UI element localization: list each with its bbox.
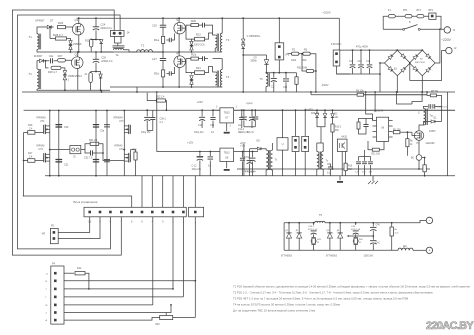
junction c37 rail — [242, 151, 244, 153]
label 18v — [335, 117, 340, 119]
wire r11 right — [379, 141, 384, 149]
svg-text:2sk1692: 2sk1692 — [426, 142, 436, 145]
capacitor C38-2 — [311, 231, 317, 234]
svg-text:1N5819/5А19: 1N5819/5А19 — [68, 75, 83, 78]
wire feed line B drop2 — [310, 92, 312, 95]
svg-text:C-12: C-12 — [192, 166, 198, 168]
wire diode string top — [242, 18, 244, 39]
transformer T4 core — [217, 71, 218, 87]
wire caps13 col b — [146, 121, 148, 131]
svg-text:~220V: ~220V — [441, 38, 452, 42]
label UT2 — [39, 148, 44, 151]
junction c38 rail — [252, 151, 254, 153]
connector pin 3 — [161, 211, 164, 214]
wire output top rail right — [325, 222, 399, 224]
junction c16 rail — [201, 109, 203, 111]
svg-text:2,4: 2,4 — [29, 155, 33, 158]
label 9u Pb — [305, 110, 313, 112]
capacitor C3 — [271, 78, 277, 81]
wire c40 b — [372, 231, 374, 240]
svg-text:P4: P4 — [52, 263, 56, 266]
label C13b — [283, 87, 288, 89]
wire r7 node — [422, 157, 425, 159]
svg-text:R28 4-7: R28 4-7 — [53, 33, 63, 37]
resistor R10-2 — [331, 124, 334, 132]
wire R28 left — [50, 38, 56, 40]
connector pin 1 — [182, 211, 185, 214]
wire cbl 2 b — [370, 165, 372, 176]
label +15v left — [240, 145, 246, 148]
ground mid section — [337, 181, 343, 183]
wire T6 top node — [265, 71, 268, 74]
wire control up 173.0 — [172, 176, 174, 208]
junction cap col rail — [58, 175, 60, 177]
transformer T6 winding — [266, 73, 268, 86]
svg-text:R26: R26 — [58, 21, 64, 25]
wire J3 bottom — [337, 66, 351, 74]
junction UT34 mid — [123, 149, 125, 151]
connector JP3 — [292, 136, 299, 151]
wire U6 pin right 0 — [389, 120, 393, 122]
svg-text:C20: C20 — [152, 24, 157, 28]
svg-text:100k: 100k — [291, 60, 297, 62]
P4 pin label 4 — [46, 297, 48, 299]
label C9 value — [251, 61, 258, 63]
wire Q1 drain up — [78, 18, 80, 24]
wire R27 to Q3 gate — [66, 60, 73, 62]
diode D4 — [323, 114, 326, 118]
connector pin 9 — [99, 211, 102, 214]
wire TB15 out — [234, 109, 455, 111]
wire to minus terminal — [399, 220, 427, 222]
junction R22 rail — [166, 109, 168, 111]
wire J4 tab to Ta — [117, 43, 119, 46]
svg-text:R1b: R1b — [154, 72, 160, 76]
wire d20 stub — [316, 110, 318, 113]
junction section rail b — [136, 91, 138, 93]
capacitor C32 — [91, 150, 93, 155]
junction C24 bus — [95, 17, 97, 19]
wire c470 a — [249, 149, 251, 160]
resistor R43 circle — [311, 238, 316, 243]
label U5 — [282, 142, 284, 146]
label outdiode2 1 — [326, 230, 329, 232]
capacitor C27 — [160, 59, 166, 61]
label IRF9640 UT3 — [114, 117, 124, 120]
junction outdiode 0 — [288, 222, 290, 224]
resistor R12 — [75, 272, 85, 275]
wire Q1 source down — [78, 35, 80, 53]
label Ta — [116, 53, 119, 57]
svg-text:R6 13k: R6 13k — [356, 90, 364, 93]
junction Q3 drain rail — [77, 51, 79, 53]
P4 pin label 3 — [46, 289, 48, 291]
wire T7a bottom — [265, 170, 267, 176]
label 60TTH6063 left — [281, 256, 293, 258]
wire D14 bottom — [100, 78, 102, 90]
svg-text:+15V: +15V — [197, 100, 204, 104]
junction r4a — [391, 222, 393, 224]
pin 3 — [216, 107, 218, 109]
wire tm top left — [424, 106, 429, 108]
svg-text:+15v: +15v — [240, 145, 246, 148]
thermistor RT1 — [405, 15, 412, 18]
junction outdiode2 1 — [339, 222, 341, 224]
junction r10-2 rail — [332, 168, 334, 170]
transformer T6 core — [268, 73, 269, 86]
svg-text:6TTH6063: 6TTH6063 — [281, 256, 293, 258]
junction r4 — [407, 131, 409, 133]
label R16 value — [29, 127, 33, 130]
wire JP4 up — [304, 110, 306, 136]
label R17 value — [29, 155, 33, 158]
ground TB15 — [224, 132, 230, 134]
sense element R7 — [416, 155, 422, 161]
resistor R24 — [195, 71, 205, 75]
wire gate UT4 feed — [103, 153, 125, 161]
label 103 — [362, 172, 366, 174]
label C14 value — [208, 166, 212, 168]
wire c9 chain a — [266, 55, 268, 60]
label C 470u 50v — [244, 171, 257, 173]
wire T7b bottom — [272, 170, 274, 176]
resistor R3 — [303, 52, 311, 55]
junction r7 rail — [418, 168, 420, 170]
label 60TTH6063 right — [326, 256, 338, 258]
capacitor C39 — [353, 231, 359, 234]
transformer T1b core — [39, 69, 40, 89]
label C32 7.5 — [84, 157, 93, 160]
wire R14 D14 top tie — [91, 71, 101, 73]
junction c35 rail — [251, 109, 253, 111]
capacitor C25b — [169, 71, 171, 75]
wire Ta right to T2 — [124, 50, 137, 52]
svg-text:VR2: VR2 — [155, 323, 160, 326]
svg-text:R13: R13 — [85, 40, 90, 43]
svg-text:R5 150: R5 150 — [393, 129, 401, 131]
connector P4 pin 6 — [54, 311, 57, 314]
svg-text:C17: C17 — [349, 61, 354, 63]
svg-text:C1 470 16в: C1 470 16в — [437, 107, 449, 109]
zener protection upper — [69, 41, 72, 45]
wire U6 pin left 0 — [373, 120, 377, 122]
svg-text:C19: C19 — [366, 61, 371, 63]
svg-text:-310V: -310V — [321, 83, 329, 87]
wire JP3 down — [295, 152, 297, 176]
svg-text:10КО 2СА: 10КО 2СА — [194, 44, 205, 47]
wire c38 col — [252, 152, 254, 158]
capacitor C13 — [144, 117, 150, 120]
pin number 0 — [195, 220, 197, 223]
wire control up 162.7 — [162, 176, 164, 208]
wire c12 colb — [199, 160, 201, 175]
svg-text:U: U — [282, 142, 284, 146]
capacitor C20 — [160, 25, 166, 27]
svg-text:2 1N5408/UL: 2 1N5408/UL — [247, 35, 262, 38]
pin 2 — [230, 126, 232, 128]
wire T1 top to gate network — [37, 27, 47, 34]
svg-text:R23: R23 — [196, 34, 201, 37]
transistor Q3 — [71, 57, 83, 69]
capacitor C40 — [370, 227, 376, 230]
junction C20 bus — [162, 17, 164, 19]
svg-text:B2: B2 — [420, 59, 423, 61]
wire zener Q4 to rail — [191, 85, 193, 88]
junction r mid — [282, 109, 284, 111]
capacitor C1a — [429, 104, 431, 108]
svg-text:2F4007: 2F4007 — [34, 54, 43, 58]
svg-text:R31 100k: R31 100k — [297, 67, 308, 70]
wire rail through Ta gap — [102, 51, 114, 53]
wire c15 col — [212, 110, 214, 116]
label 1N5819 5A19 — [68, 75, 83, 78]
output diode 3 — [327, 233, 332, 238]
wire mid bottom rail 1 — [237, 168, 430, 170]
svg-text:C4: C4 — [355, 172, 359, 174]
label R4 — [410, 141, 414, 143]
fuse F1 — [388, 15, 395, 18]
junction C26 R14 — [95, 71, 97, 73]
label R2 value — [291, 60, 297, 62]
zener protection upper B — [63, 71, 66, 75]
label T3 — [226, 38, 230, 42]
resistor R43 — [312, 238, 315, 245]
svg-text:4,7к: 4,7к — [395, 233, 399, 235]
svg-text:C15: C15 — [210, 125, 215, 127]
transformer T4 winding left — [215, 72, 217, 85]
label 0.1b — [239, 132, 243, 134]
capacitor C12 plates bold — [197, 156, 203, 158]
wire Q3 source down — [77, 68, 79, 90]
label TB12 — [224, 152, 231, 155]
junction JP2 bus — [278, 17, 280, 19]
connector P4 pin 3 — [54, 288, 57, 291]
svg-text:T5: T5 — [319, 213, 323, 217]
svg-text:C27: C27 — [152, 57, 157, 61]
wire d jointail — [320, 127, 322, 143]
wire bottom rail to coil — [373, 249, 398, 251]
wire C4b to T3 — [205, 25, 213, 28]
wire r11 left — [368, 141, 372, 150]
label C40 — [376, 225, 381, 227]
label F1 — [388, 9, 391, 12]
diode D13 — [100, 40, 103, 44]
wire d20 d4 join — [317, 118, 325, 127]
capacitor C14 — [208, 157, 214, 159]
wire u6 feed — [366, 98, 373, 121]
wire c36 bot — [152, 120, 154, 131]
resistor R13 — [90, 39, 93, 47]
junction Q1 drain bus — [78, 17, 80, 19]
wire c14 colb — [209, 160, 211, 175]
label C3 — [271, 87, 275, 89]
wire c35 colb — [251, 121, 253, 128]
wire c34 col — [241, 110, 243, 116]
capacitor C5 — [363, 125, 368, 127]
capacitor C31 — [55, 160, 62, 162]
wire snub1 b — [313, 234, 315, 237]
wire R23 top node — [186, 28, 192, 39]
junction D13 rail — [100, 51, 102, 53]
label D8 — [257, 140, 261, 143]
label R27 — [58, 54, 63, 58]
junction T2 right — [162, 51, 164, 53]
wire C24 top — [95, 18, 97, 27]
pin number 4 — [152, 220, 154, 224]
label P4 — [52, 263, 56, 266]
capacitor C19 — [367, 65, 373, 68]
svg-text:UT2: UT2 — [39, 148, 44, 151]
wire U6 pin right 2 — [389, 131, 393, 133]
label R6 13k — [356, 90, 364, 93]
diode D7 — [47, 25, 51, 28]
pin number 10 — [88, 220, 91, 224]
label B2 — [420, 59, 423, 61]
junction d20 — [316, 109, 318, 111]
wire output top rail left — [284, 222, 315, 224]
label J4 — [127, 31, 130, 35]
connector JP4 — [302, 136, 309, 151]
junction b1 left drop — [379, 62, 381, 64]
wire VR2 wiper — [165, 313, 167, 316]
capacitor C4k — [51, 58, 53, 63]
wire J5 left — [50, 149, 70, 151]
wire cl link — [366, 119, 373, 121]
pin number 6 — [131, 220, 133, 224]
wire P4 pin5 wire — [64, 304, 153, 306]
label VR2 — [155, 323, 160, 326]
svg-text:Д3: Д3 — [326, 230, 329, 232]
connector P4 pin 5 — [54, 304, 57, 307]
label 0.68 630v — [331, 43, 342, 46]
wire r mid a — [282, 110, 284, 138]
svg-text:3к: 3к — [85, 73, 88, 76]
wire c37 col — [242, 152, 244, 158]
bridge B2 diode — [426, 67, 431, 72]
label R16 — [28, 124, 33, 127]
label D2 18v — [335, 114, 339, 116]
wire outdiode2 1 b — [339, 238, 341, 250]
wire R20 top — [131, 150, 136, 154]
transformer T7 core — [268, 150, 269, 170]
wire p1 source — [418, 140, 420, 154]
label C1 4700 160 — [437, 107, 449, 109]
svg-text:Ta: Ta — [116, 53, 119, 57]
label Df — [403, 245, 407, 248]
label R8 50k — [431, 91, 439, 93]
wire coil to plus terminal — [413, 249, 426, 251]
label outdiode2 2 — [337, 230, 340, 232]
resistor R31 — [306, 69, 314, 72]
wire T1 bottom to rail — [37, 49, 52, 52]
optocoupler U4 innards — [340, 143, 345, 149]
wire cap bank 2 bottom — [369, 68, 371, 74]
svg-text:RT1: RT1 — [403, 9, 408, 12]
svg-text:C39: C39 — [351, 226, 356, 228]
capacitor C38 — [250, 158, 256, 161]
connector JP3 pins — [294, 139, 297, 149]
junction D14 rail — [100, 89, 102, 91]
wire output left vert — [283, 223, 285, 251]
label C38-2 value — [308, 229, 318, 231]
transistor UT2 IRF640 — [44, 153, 50, 163]
wire snub1 a — [313, 223, 315, 225]
capacitor C26 — [93, 59, 99, 62]
svg-text:103: 103 — [369, 172, 373, 174]
wire TB12 out — [234, 151, 258, 153]
bridge rectifier B1 outline — [385, 50, 411, 76]
svg-text:0,1: 0,1 — [208, 166, 212, 168]
wire C25 right — [171, 34, 174, 41]
svg-text:KBPC3510: KBPC3510 — [415, 62, 426, 64]
svg-text:Т4 на кольце 20*10*5 мотать 50: Т4 на кольце 20*10*5 мотать 50 витков 0,… — [233, 303, 340, 307]
svg-text:J5: J5 — [73, 156, 76, 159]
svg-text:0,68 630v: 0,68 630v — [331, 43, 342, 46]
wire r32 up — [296, 73, 298, 77]
wire cap bank 1 top — [360, 50, 362, 64]
label R43 value — [317, 242, 320, 244]
transformer T7 winding B — [270, 150, 272, 170]
label 47u 6v — [247, 132, 255, 134]
wire c13 gnd tie — [147, 130, 153, 132]
wire caps gnd link — [244, 126, 255, 128]
connector pin 6 — [130, 211, 133, 214]
svg-text:5мк(Рб): 5мк(Рб) — [305, 110, 313, 112]
wire rb b — [424, 172, 426, 176]
wire cap 255.3 a — [254, 110, 256, 116]
label 1500 2kV — [364, 256, 374, 258]
label C19 — [366, 61, 371, 63]
wire T8 top — [316, 143, 318, 152]
capacitor C4b — [203, 23, 205, 28]
label IRF640 UT2 — [37, 145, 46, 148]
wire cbl top tie — [359, 156, 371, 158]
wire R16 left — [24, 131, 28, 133]
label S1 — [409, 21, 411, 24]
capacitor C17 — [350, 65, 356, 68]
switch S1 — [403, 25, 421, 31]
junction c14 rail — [209, 151, 211, 153]
label 0.1 — [211, 132, 215, 134]
connector P4 pin 1 — [54, 272, 57, 275]
label 100u 16v — [141, 132, 151, 134]
transformer T1 primary winding — [37, 34, 39, 50]
svg-text:Z: Z — [46, 313, 48, 315]
connector pin 10 — [88, 211, 91, 214]
label TB15 — [224, 112, 231, 115]
label B1 — [394, 68, 398, 71]
svg-text:R8 50k: R8 50k — [431, 91, 439, 93]
junction snub1 — [313, 222, 315, 224]
label R2 — [292, 49, 296, 52]
wire control up 152.3 — [151, 176, 153, 208]
junction Q1 source rail — [78, 51, 80, 53]
note line 1 — [233, 285, 471, 289]
label C24 value — [101, 27, 113, 30]
wire cbl to ic — [364, 150, 366, 157]
wire input row — [383, 15, 429, 17]
wire Q4 gate right — [182, 59, 191, 62]
svg-text:D1: D1 — [434, 118, 438, 120]
wire gnd stub right — [372, 176, 374, 181]
wire D13 vertical — [100, 39, 102, 41]
diode D14 — [99, 74, 102, 78]
wire C27 top — [162, 52, 164, 59]
label C12 — [192, 166, 198, 168]
wire T8 bottom a — [316, 169, 318, 175]
wire drop 396.6 — [396, 92, 398, 98]
svg-text:Д1: Д1 — [286, 230, 289, 232]
